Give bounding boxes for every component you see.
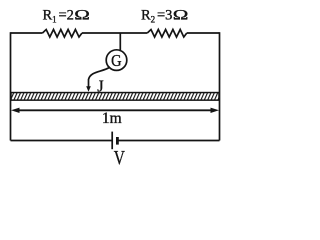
svg-text:Ω: Ω	[74, 7, 90, 23]
svg-text:1m: 1m	[102, 110, 122, 127]
battery V short plate	[116, 137, 119, 145]
wire galvanometer tap	[119, 33, 121, 51]
galvanometer G	[106, 50, 127, 71]
wire top-right segment	[187, 32, 220, 34]
wire jockey lead	[89, 67, 111, 88]
svg-text:Ω: Ω	[173, 7, 189, 23]
dimension arrowhead left	[11, 108, 20, 113]
wire bottom-left segment	[11, 140, 113, 142]
wire bottom-right segment	[117, 140, 219, 142]
svg-text:V: V	[114, 146, 125, 168]
jockey arrowhead J	[86, 86, 91, 92]
dimension line 1m	[16, 109, 214, 111]
resistor R2	[147, 30, 187, 38]
wire right side	[219, 32, 221, 140]
resistor R1	[43, 30, 83, 38]
dimension arrowhead right	[211, 108, 220, 113]
wire top-left segment	[11, 32, 43, 34]
wire left side	[10, 32, 12, 140]
svg-text:R2=3: R2=3	[141, 7, 172, 24]
bridge wire bar	[11, 93, 219, 101]
wire top-middle segment	[82, 32, 147, 34]
svg-text:R1=2: R1=2	[43, 7, 74, 24]
svg-text:G: G	[111, 52, 121, 70]
battery V long plate	[111, 132, 113, 150]
